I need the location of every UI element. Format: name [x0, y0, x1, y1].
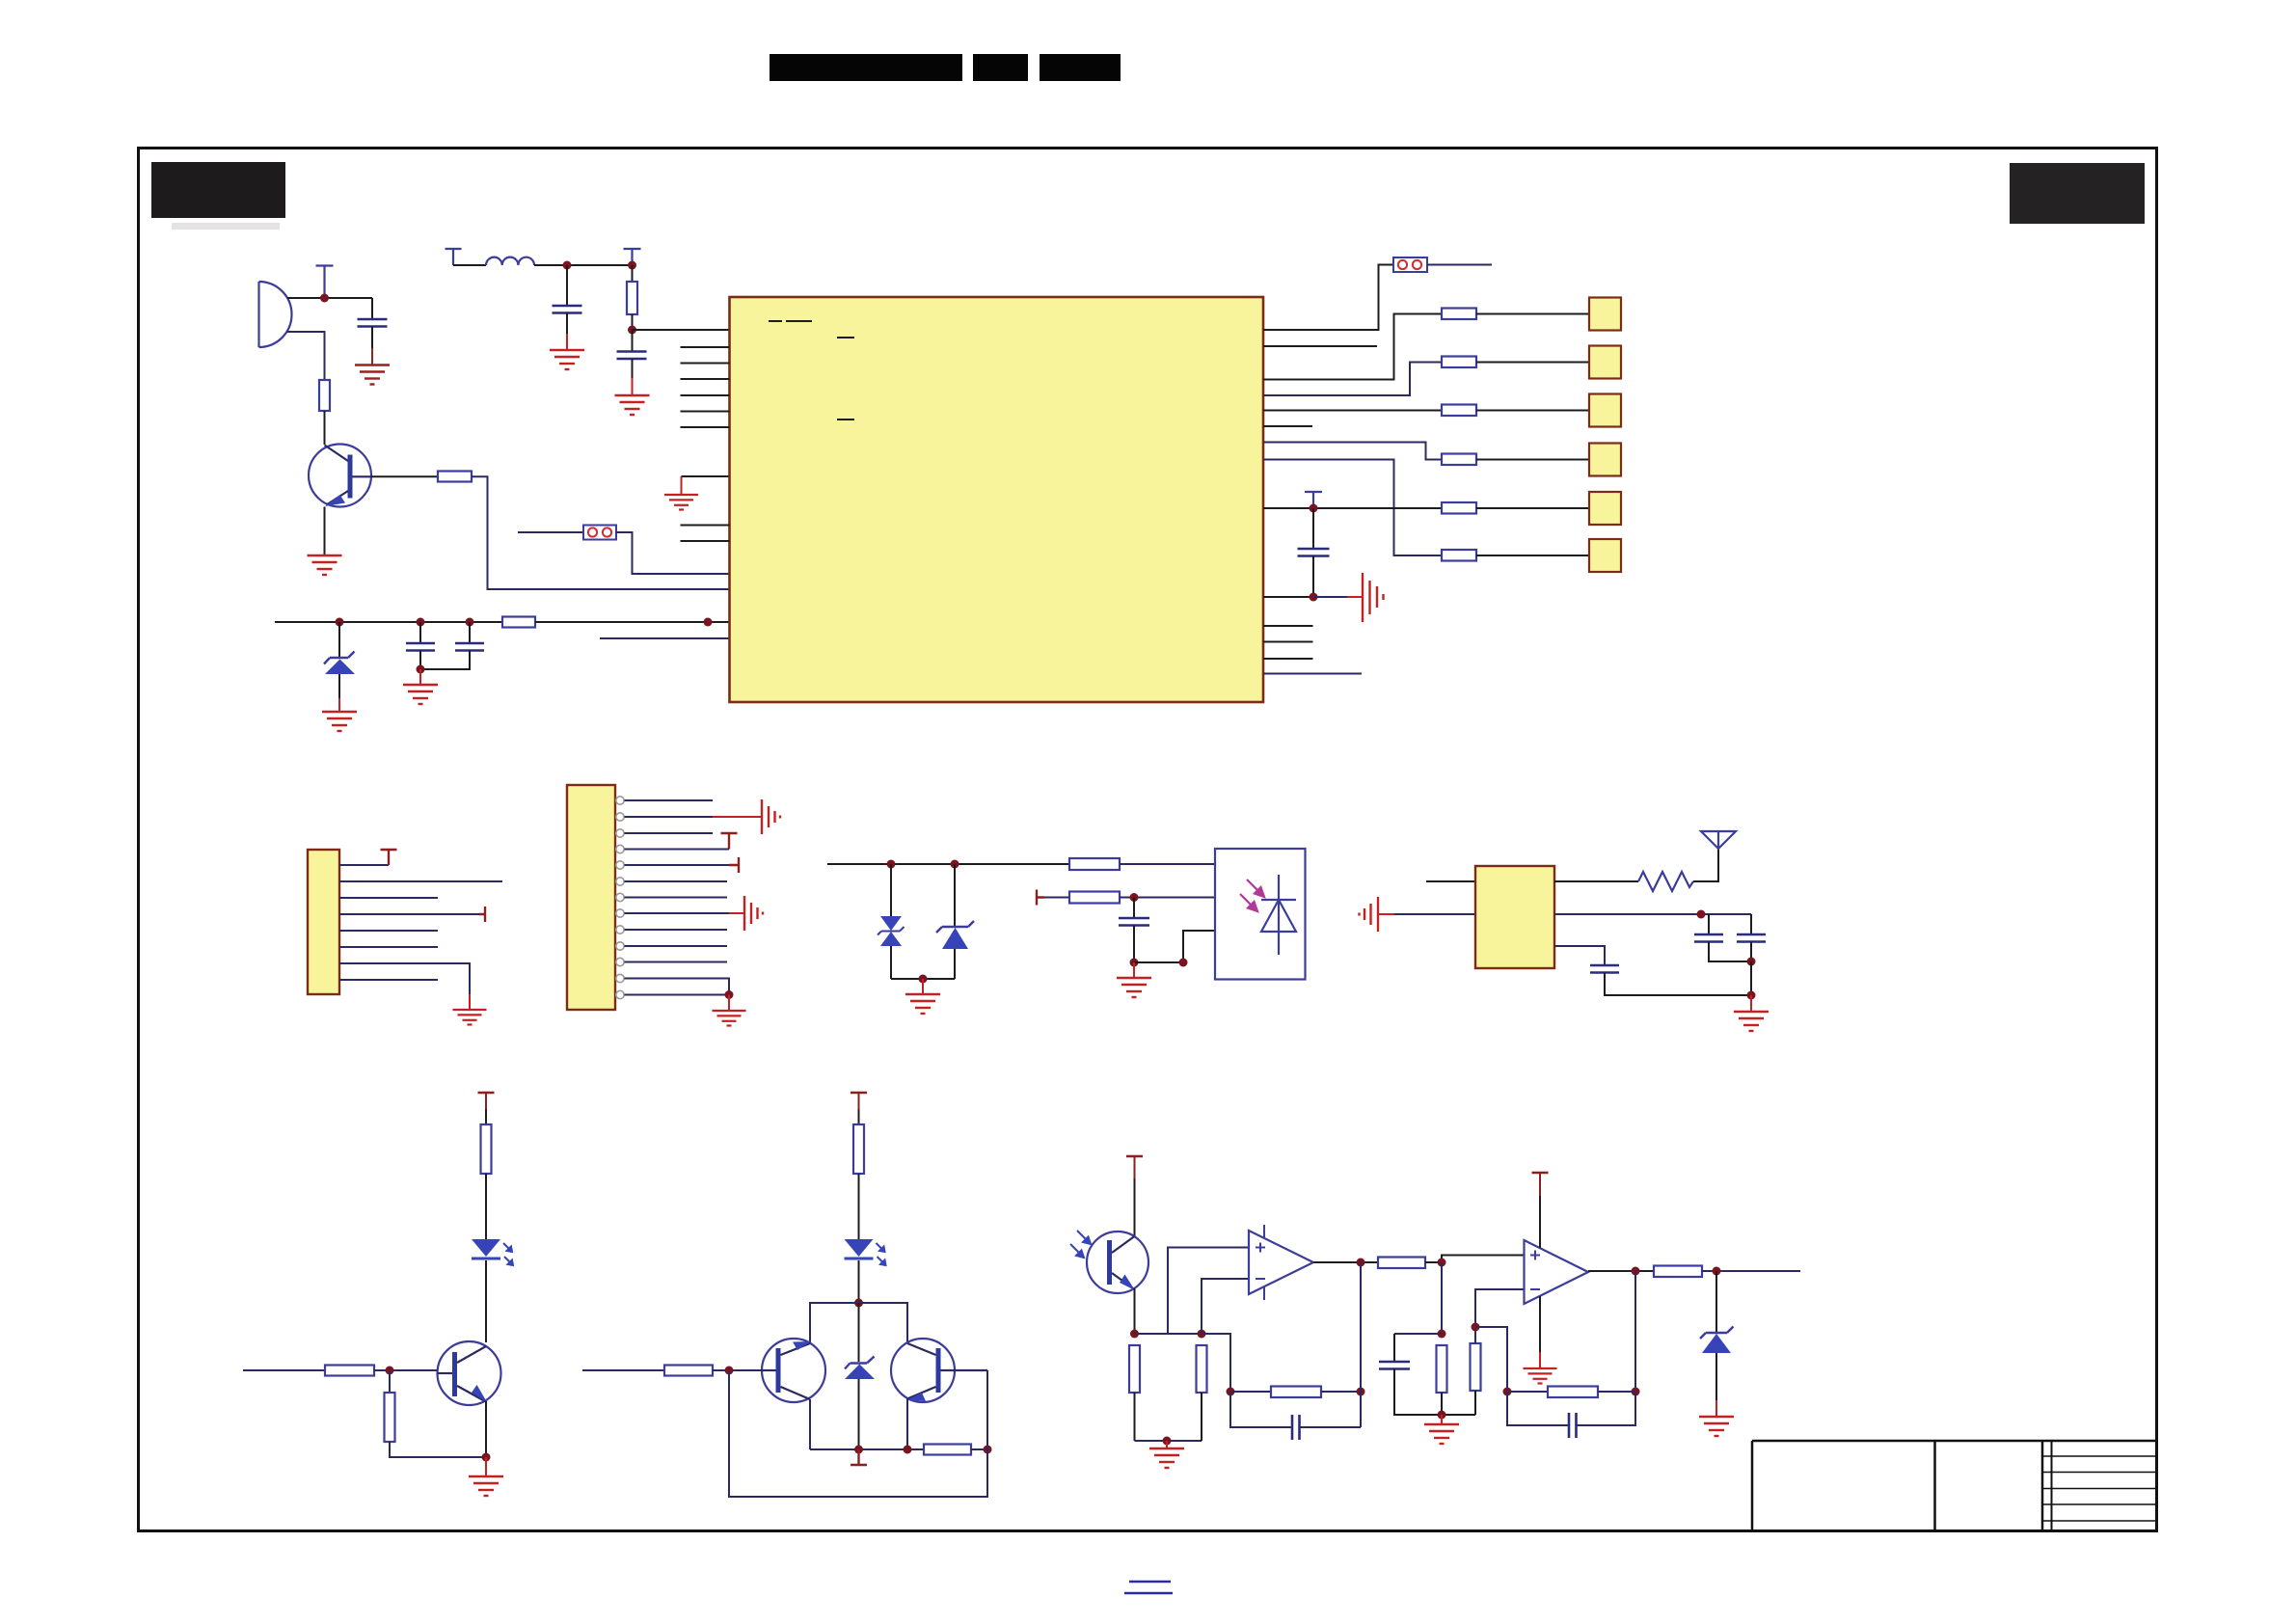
RF choke R13 zigzag: [1638, 872, 1693, 891]
wire: [1300, 1426, 1362, 1428]
wire: [1135, 1333, 1202, 1335]
wire: [1598, 1391, 1635, 1393]
resistor R19: [664, 1366, 713, 1376]
resistor R10: [1442, 550, 1476, 561]
RF module U3: [1475, 866, 1554, 968]
wire: [1201, 1393, 1202, 1441]
wire: [713, 1369, 762, 1371]
wire: [632, 378, 634, 395]
wire: [728, 995, 730, 1012]
node V: [386, 1367, 394, 1375]
wire: [1554, 880, 1638, 882]
title redaction box 3: [1040, 54, 1121, 81]
ground: [1699, 1417, 1734, 1436]
zener diode D6: [845, 1303, 875, 1449]
IC U1 main microcontroller: [730, 297, 1264, 702]
antenna ANT1: [1701, 831, 1736, 849]
top-left redaction box: [151, 162, 285, 218]
wire CN2 pin4: [625, 849, 730, 851]
wire: [1134, 1156, 1136, 1178]
wire CN2 pin9: [625, 929, 728, 931]
wire: [566, 334, 568, 350]
wire net IRrail: [827, 863, 1069, 865]
inductor L1: [486, 257, 534, 265]
wire CN2 pin5: [625, 864, 730, 866]
wire: [1539, 1173, 1541, 1196]
resistor R23: [1378, 1258, 1425, 1269]
wire: [1507, 1392, 1569, 1425]
ground sideways: [1363, 573, 1384, 622]
power stub maroon: [479, 907, 485, 922]
ground: [550, 350, 584, 369]
ground: [905, 994, 940, 1014]
resistor R18: [924, 1445, 971, 1455]
node D: [417, 618, 425, 627]
terminal stub maroon: [1037, 890, 1044, 906]
wire pin GND2: [1263, 596, 1313, 598]
capacitor C5: [455, 643, 484, 651]
wire CN2 pin10: [625, 945, 728, 947]
ground: [713, 1011, 746, 1026]
wire: [681, 476, 683, 495]
wire: [1426, 880, 1475, 882]
transistor Q1: [309, 445, 371, 507]
resistor R25: [1471, 1343, 1481, 1391]
wire: [453, 264, 486, 266]
title block vertical divider 4: [2051, 1441, 2053, 1530]
wire: [1134, 1288, 1136, 1334]
wire: [1133, 898, 1135, 919]
wire: [954, 949, 956, 979]
wire: [374, 1369, 438, 1371]
wire: [1427, 264, 1492, 266]
capacitor C9: [1737, 934, 1766, 942]
title block vertical divider 3: [2041, 1441, 2044, 1530]
node I: [951, 860, 959, 869]
node AB: [725, 1367, 734, 1375]
wire pin row5 to R7: [1263, 410, 1442, 412]
node AG: [1227, 1388, 1235, 1396]
wire: [1312, 508, 1314, 549]
wire: [1133, 926, 1135, 963]
capacitor C3: [358, 319, 388, 327]
node O: [919, 975, 928, 984]
wire: [632, 330, 634, 352]
wire: [1476, 459, 1589, 461]
connector CN1: [308, 850, 339, 994]
wire: [1554, 946, 1605, 965]
node W: [482, 1453, 491, 1462]
node AC: [1130, 1330, 1139, 1339]
wire pin GND: [682, 475, 730, 477]
zener diode D7: [1700, 1327, 1734, 1354]
power stub maroon: [729, 857, 739, 873]
wire: [1588, 1270, 1654, 1272]
resistor R4: [502, 617, 535, 628]
wire: [1476, 507, 1589, 509]
wire: [324, 507, 326, 556]
wire: [858, 1093, 860, 1109]
wire pin row6 stub: [1263, 425, 1312, 427]
title block vertical divider 2: [1933, 1441, 1936, 1530]
wire CN2 pin7: [625, 897, 728, 899]
wire: [324, 411, 326, 445]
wire: [338, 698, 340, 712]
capacitor C7: [1119, 918, 1149, 926]
node AJ: [1438, 1330, 1446, 1339]
capacitor C2: [617, 352, 647, 360]
wire: [287, 332, 325, 380]
node AI: [1438, 1259, 1446, 1267]
resistor R5: [1442, 309, 1476, 320]
node G: [725, 990, 734, 999]
wire: [287, 297, 372, 299]
pad P6: [1589, 539, 1621, 572]
wire: [389, 1370, 391, 1393]
wire: [338, 674, 340, 698]
light arrows magenta: [1240, 880, 1264, 911]
wire: [1313, 596, 1347, 598]
node K: [628, 261, 636, 270]
wire: [1135, 1440, 1202, 1442]
wire: [858, 1174, 860, 1239]
speaker LS1: [259, 282, 292, 347]
wire: [1750, 914, 1752, 934]
wire: [469, 622, 471, 643]
node AF: [1357, 1259, 1365, 1267]
wire pin row4 to R6: [1263, 363, 1442, 396]
wire: [371, 298, 373, 319]
wire CN1 pin3: [339, 897, 438, 899]
wire: [600, 637, 730, 639]
wire: [534, 264, 633, 266]
title redaction box 1: [770, 54, 962, 81]
transistor Q4: [891, 1339, 987, 1402]
capacitor C1: [553, 306, 582, 313]
wire: [809, 1399, 811, 1449]
wire: [1360, 1262, 1362, 1427]
wire: [371, 475, 438, 477]
wire: [1539, 1352, 1541, 1368]
wire: [1441, 1393, 1443, 1415]
zener diode D3: [936, 921, 974, 949]
wire: [1120, 897, 1215, 899]
wire: [1715, 1400, 1717, 1417]
title block vertical divider 1: [1751, 1441, 1754, 1530]
node U: [1747, 991, 1756, 1000]
wire: [713, 816, 762, 818]
wire: [922, 979, 924, 994]
resistor R12: [1069, 892, 1120, 904]
wire: [419, 651, 421, 670]
wire: [986, 1370, 988, 1449]
resistor R7: [1442, 405, 1476, 417]
wire: [954, 864, 956, 927]
capacitor C11: [1292, 1415, 1300, 1440]
wire: [1539, 1196, 1541, 1248]
wire pin row last: [1263, 673, 1362, 675]
wire: [1394, 1369, 1475, 1416]
node AK: [1438, 1411, 1446, 1420]
wire: [890, 946, 892, 979]
TVS diode D2: [878, 916, 905, 946]
wire pin row8 to R10: [1263, 460, 1442, 556]
wire: [419, 622, 421, 643]
wire CN1 pin1: [339, 864, 389, 866]
wire: [485, 1109, 487, 1124]
ground: [1734, 1012, 1769, 1031]
wire CN2 pin11: [625, 961, 728, 963]
wire: [906, 1398, 908, 1449]
wire CN2 pin3: [625, 832, 714, 834]
wire CN1 pin5: [339, 930, 438, 932]
wire CN2 pin1: [625, 799, 714, 801]
node F: [417, 665, 425, 674]
wire: [485, 1174, 487, 1239]
wire: [1312, 556, 1314, 598]
wire pin row9 to R9: [1263, 507, 1442, 509]
wire: [729, 912, 744, 914]
wire: [338, 622, 340, 658]
wire: [1709, 942, 1751, 962]
resistor R8: [1442, 454, 1476, 466]
wire CN2 pin12: [625, 979, 730, 995]
wire: [632, 359, 634, 378]
node E: [466, 618, 474, 627]
capacitor C8: [1694, 934, 1723, 942]
wire: [371, 327, 373, 349]
node AE: [1163, 1437, 1172, 1446]
node AM: [1503, 1388, 1512, 1396]
title block row lines: [2042, 1456, 2156, 1521]
resistor R26: [1654, 1266, 1702, 1278]
wire pin row3 to R5: [1263, 314, 1442, 380]
wire: [616, 532, 730, 574]
wire net rail: [275, 621, 502, 623]
ground sideways: [744, 896, 763, 931]
ground: [1117, 978, 1151, 997]
node R: [1179, 959, 1188, 967]
wire: [858, 1109, 860, 1124]
node AH: [1357, 1388, 1365, 1396]
resistor R17: [853, 1124, 864, 1174]
wire: [485, 1260, 487, 1342]
wire CN1 pin6: [339, 946, 438, 948]
node L: [628, 326, 636, 335]
wire net rail2: [810, 1448, 924, 1450]
ground: [453, 1010, 487, 1025]
wire: [1202, 1334, 1230, 1392]
wire: [1393, 1334, 1395, 1362]
wire: [1476, 555, 1589, 556]
wire minus input: [1202, 1279, 1249, 1334]
node B: [704, 618, 713, 627]
wire: [632, 265, 634, 282]
power flag maroon V2: [851, 1092, 867, 1095]
wire: [535, 621, 730, 623]
wire: [1750, 995, 1752, 1012]
CN2 pin circles: [616, 797, 624, 999]
capacitor C13: [1569, 1413, 1577, 1438]
phototransistor Q5: [1087, 1232, 1148, 1293]
power flag VCC1: [446, 249, 462, 265]
photodiode inside U2: [1261, 875, 1296, 955]
wire CN2 pin6: [625, 880, 728, 882]
wire: [1474, 1391, 1476, 1415]
redacted label dashes inside U1: [769, 321, 854, 420]
op-amp U4: [1249, 1225, 1313, 1300]
wire: [485, 1093, 487, 1109]
title block divider top line: [1752, 1440, 2156, 1443]
capacitor C12: [1379, 1362, 1410, 1369]
wire: [390, 1442, 486, 1457]
resistor R2: [319, 380, 330, 411]
ground: [1524, 1368, 1557, 1384]
ground: [1149, 1448, 1184, 1468]
wire: [890, 864, 892, 916]
node C: [336, 618, 344, 627]
connector CN2: [567, 785, 615, 1010]
wire: [1702, 1270, 1800, 1272]
node M: [1310, 504, 1318, 513]
ground: [469, 1476, 503, 1496]
ground: [1424, 1424, 1459, 1444]
wire: [1693, 849, 1718, 881]
capacitor C10: [1590, 965, 1619, 973]
wire: [582, 1369, 664, 1371]
node Y: [854, 1446, 863, 1454]
wire: [1476, 313, 1589, 315]
wire: [859, 1303, 908, 1342]
capacitor C6: [1298, 549, 1330, 556]
node X: [854, 1299, 863, 1308]
power flag maroon V1: [478, 1092, 495, 1095]
wire: [1507, 1391, 1548, 1393]
wire feedback loop: [729, 1370, 987, 1497]
node AL: [1472, 1323, 1480, 1332]
wire: [1476, 410, 1589, 412]
jumper J1: [583, 526, 616, 540]
wire: [469, 994, 471, 1010]
wire pin row7 to R8: [1263, 443, 1442, 460]
wire: [1750, 942, 1752, 962]
wire pin U1 right row jumper: [1263, 265, 1393, 331]
wire: [1378, 913, 1394, 915]
power flag maroon V4: [1126, 1155, 1143, 1158]
wire: [1313, 1261, 1378, 1263]
op-amp U5: [1525, 1240, 1589, 1304]
wire: [1394, 913, 1475, 915]
transistor Q2: [438, 1341, 501, 1405]
wire: [971, 1448, 987, 1450]
power flag VCC4: [624, 249, 641, 265]
wire pin stubs U1 right lower: [1263, 626, 1313, 659]
node T: [1747, 958, 1756, 966]
resistor R3: [438, 472, 472, 482]
wire: [243, 1369, 325, 1371]
node J: [563, 261, 572, 270]
power flag VCC2: [316, 266, 334, 299]
power flag VCC3: [1305, 492, 1322, 508]
wire: [419, 669, 421, 685]
power stub maroon: [721, 833, 738, 850]
resistor R14: [481, 1124, 492, 1174]
node AO: [1713, 1267, 1721, 1276]
wire pin P1: [633, 329, 730, 331]
ground: [403, 685, 438, 704]
wire: [485, 1401, 487, 1457]
wire CN1 pin4: [339, 913, 479, 915]
node A: [320, 294, 329, 303]
capacitor C4: [406, 643, 435, 651]
resistor R6: [1442, 357, 1476, 368]
wire CN1 pin7: [339, 963, 470, 994]
wire: [1230, 1392, 1292, 1427]
IR receiver U2: [1215, 849, 1306, 980]
node AA: [984, 1446, 992, 1454]
node Q: [1130, 959, 1139, 967]
wire: [1715, 1353, 1717, 1400]
ground: [322, 712, 357, 731]
light arrows magenta: [1070, 1231, 1091, 1258]
wire: [1425, 1261, 1442, 1263]
wire: [1134, 1178, 1136, 1236]
ground sideways left: [1360, 897, 1379, 932]
wire: [1441, 1415, 1443, 1424]
wire minus input 2: [1475, 1289, 1525, 1343]
ground: [615, 395, 650, 415]
resistor R21: [1197, 1345, 1207, 1393]
wire: [1539, 1296, 1541, 1352]
node N: [1310, 593, 1318, 602]
wire: [485, 1457, 487, 1476]
wire: [1441, 1262, 1443, 1334]
title redaction box 2: [973, 54, 1028, 81]
wire: [1347, 596, 1363, 598]
wire: [1044, 897, 1069, 899]
ground: [308, 555, 342, 575]
wire: [858, 1260, 860, 1303]
wire pin stubs U1 left: [681, 347, 730, 541]
footer link underline 1: [1129, 1581, 1171, 1583]
wire: [1715, 1271, 1717, 1333]
node P: [1130, 893, 1139, 902]
wire: [810, 1303, 859, 1342]
power flag maroon V5: [1532, 1172, 1549, 1175]
pad P5: [1589, 492, 1621, 525]
resistor R24: [1437, 1345, 1447, 1393]
wire: [1442, 1256, 1525, 1263]
resistor R27: [1548, 1387, 1598, 1398]
wire: [1134, 931, 1215, 962]
wire: [1134, 1393, 1136, 1441]
wire: [371, 348, 373, 365]
wire CN2 pin13: [625, 994, 730, 996]
wire: [1394, 1333, 1442, 1335]
wire: [1634, 1271, 1636, 1392]
node AD: [1198, 1330, 1206, 1339]
ground sideways: [762, 799, 780, 834]
wire: [1605, 961, 1751, 995]
resistor R15: [325, 1366, 374, 1376]
wire: [518, 531, 583, 533]
wire: [566, 313, 568, 335]
pad P3: [1589, 394, 1621, 427]
node AN: [1632, 1267, 1640, 1276]
power flag maroon: [381, 850, 397, 865]
wire CN1 pin8: [339, 979, 438, 981]
faint redacted text under box: [172, 223, 280, 230]
